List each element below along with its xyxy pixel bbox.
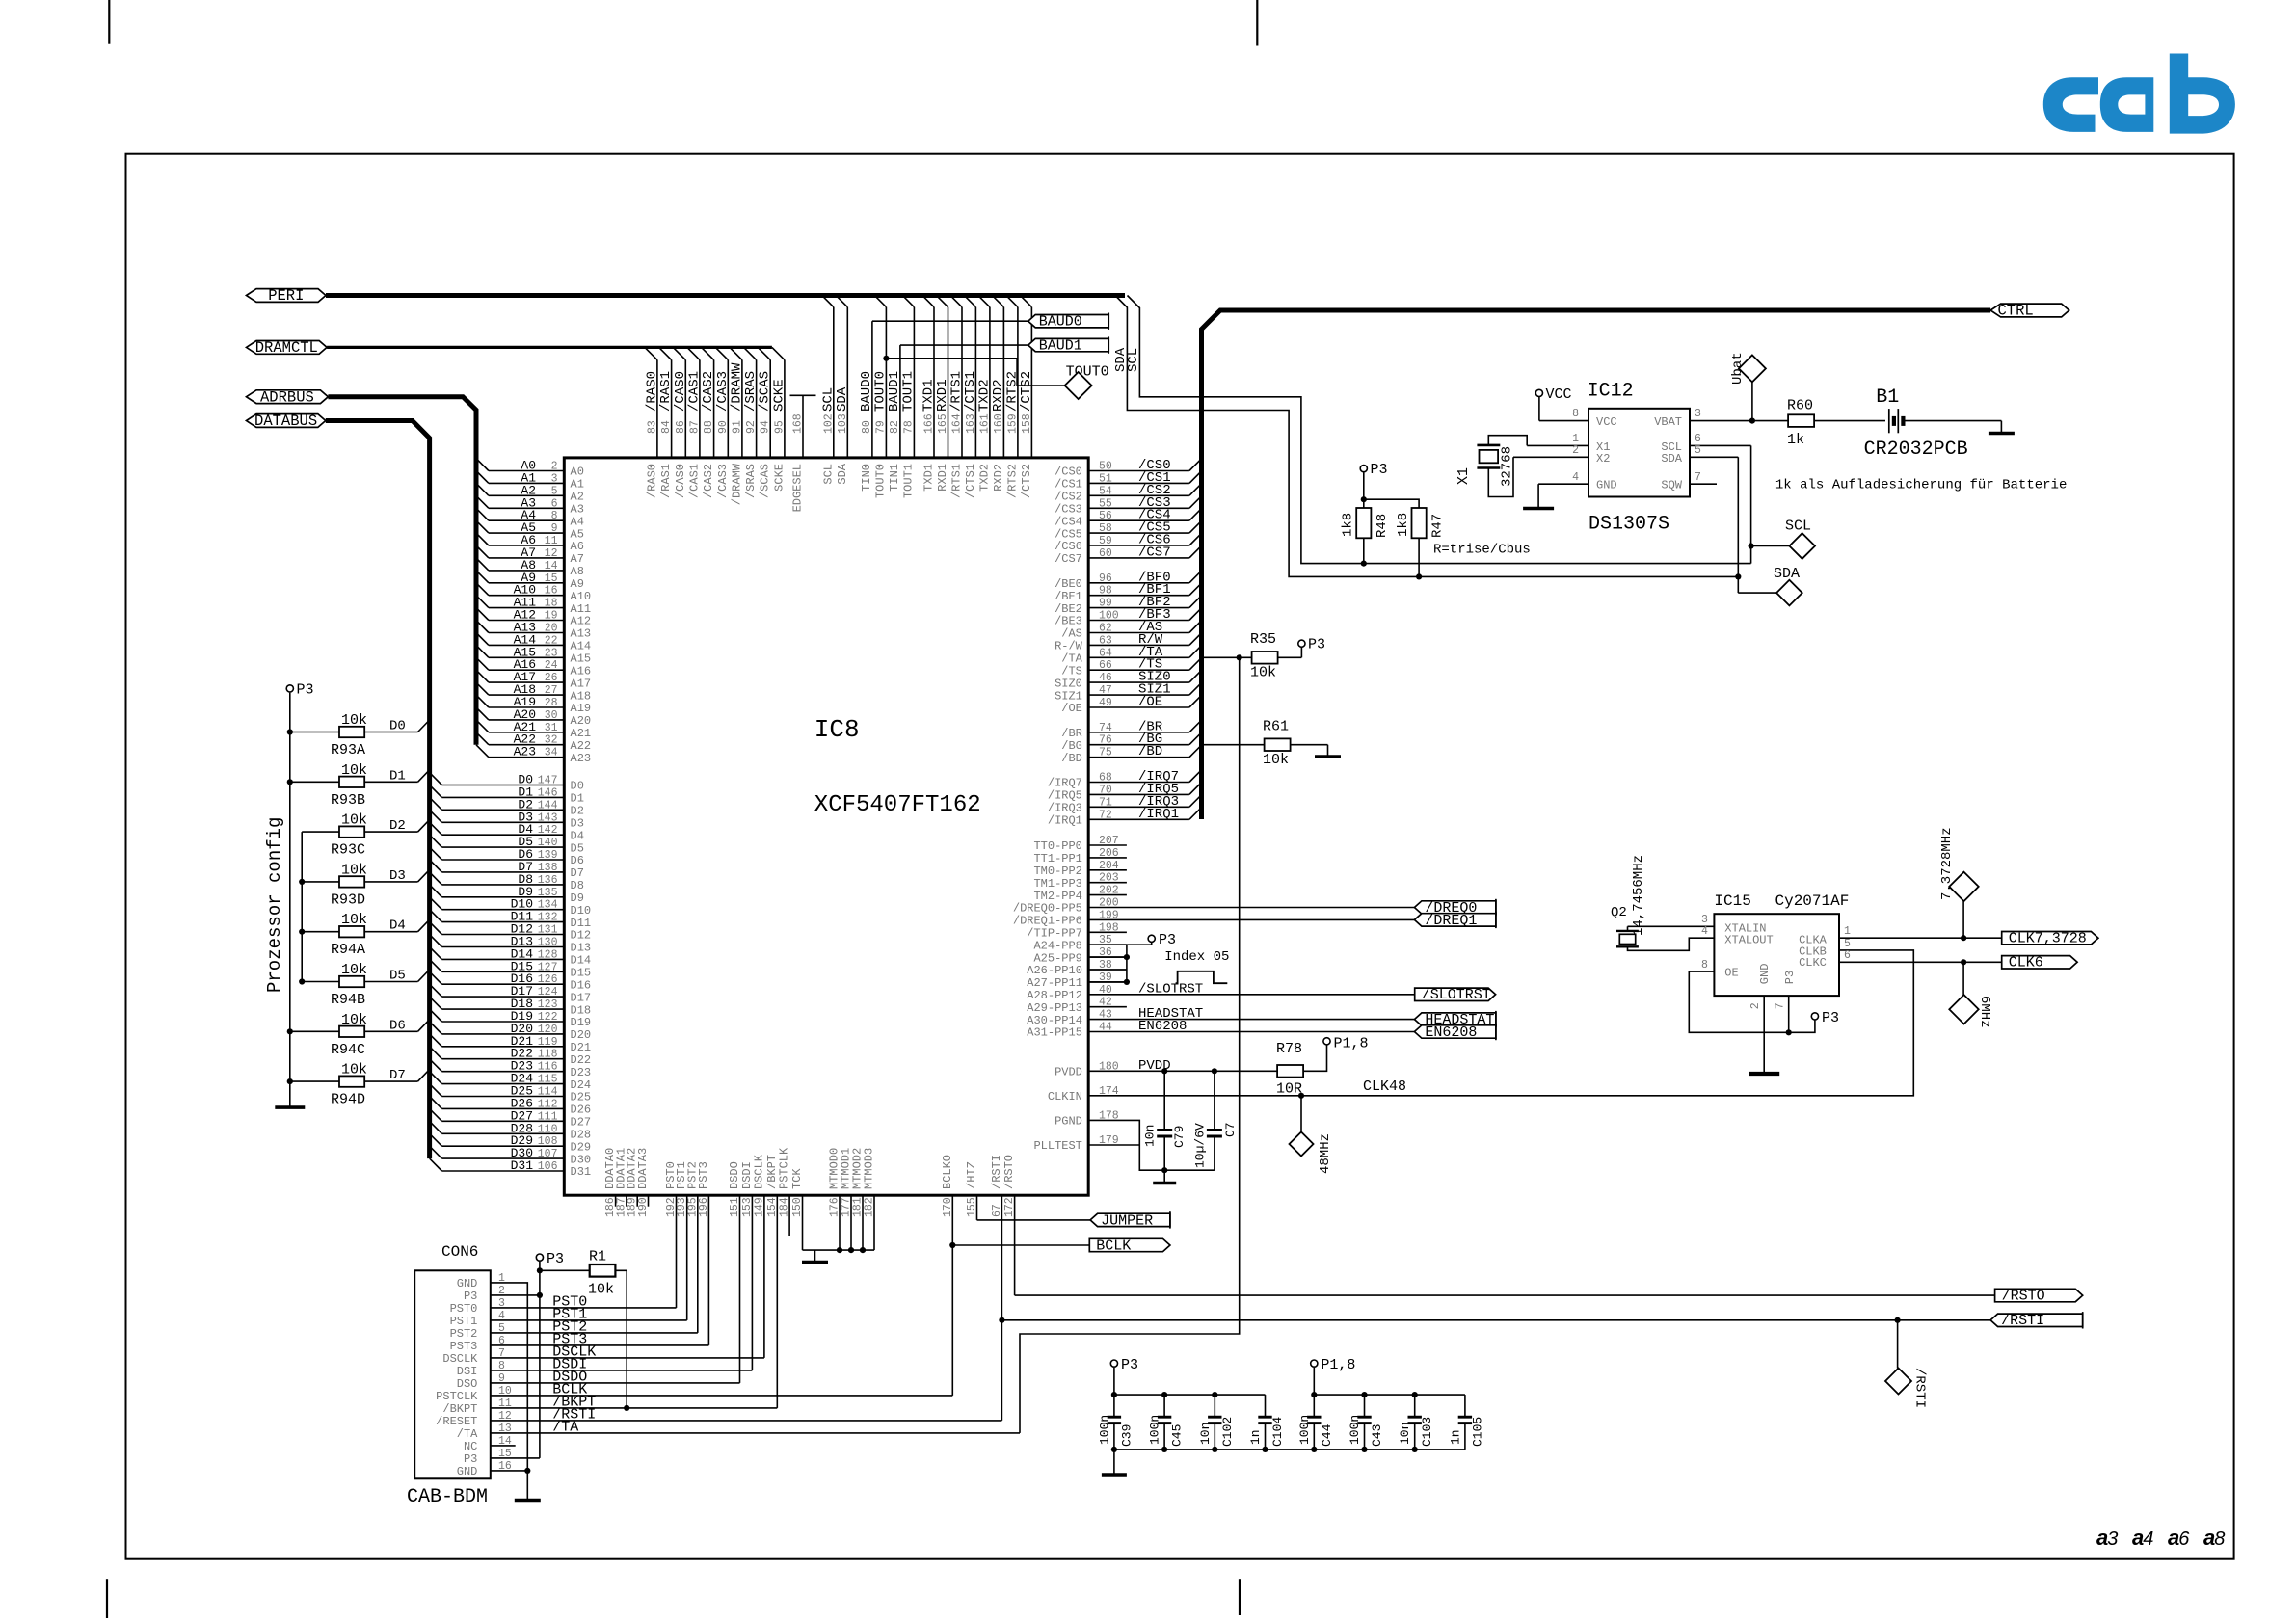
crystal X1 32768 (1477, 444, 1500, 447)
svg-text:/CS3: /CS3 (1055, 503, 1082, 517)
capacitor C43 100n (1364, 1395, 1366, 1417)
svg-text:TIN0: TIN0 (860, 464, 873, 492)
svg-text:/TIP-PP7: /TIP-PP7 (1027, 927, 1082, 941)
svg-text:C104: C104 (1270, 1417, 1285, 1447)
svg-text:/IRQ7: /IRQ7 (1048, 777, 1082, 790)
svg-text:/CAS3: /CAS3 (715, 371, 731, 412)
bus flag ADRBUS (247, 390, 329, 404)
bus flag DRAMCTL (247, 341, 328, 355)
wire D1 to DATABUS entry (364, 781, 417, 783)
svg-text:10k: 10k (341, 862, 367, 878)
svg-text:10k: 10k (1250, 665, 1276, 681)
svg-text:D4: D4 (571, 829, 584, 842)
wire /SLOTRST (1088, 994, 1415, 996)
svg-text:10k: 10k (1263, 752, 1289, 768)
pin D16 (126) stub + bus entry (441, 983, 564, 985)
ground at R61 (1327, 745, 1329, 757)
svg-text:C103: C103 (1420, 1417, 1434, 1447)
wire P3 vertical ladder (289, 693, 291, 1096)
supply P1,8 at R78 (1323, 1038, 1330, 1045)
svg-text:DRAMCTL: DRAMCTL (255, 339, 318, 357)
resistor R78 10R (1277, 1065, 1303, 1078)
pin /CAS3 (90) stub to DRAMCTL bus (727, 359, 729, 458)
wire D3 to DATABUS entry (364, 881, 417, 883)
svg-text:/CAS2: /CAS2 (701, 371, 716, 412)
pin MTMOD1 (177) wire to ground rail (850, 1195, 852, 1250)
pin SIZ1 (47) stub + net SIZ1 bus entry (1088, 694, 1189, 696)
bus flag DATABUS (247, 414, 326, 428)
pin SIZ0 (46) stub + net SIZ0 bus entry (1088, 681, 1189, 683)
svg-text:/RTS2: /RTS2 (1005, 464, 1019, 498)
ground at C79 (1163, 1170, 1165, 1183)
svg-text:D10: D10 (571, 904, 592, 918)
svg-text:56: 56 (1099, 510, 1112, 522)
svg-text:/TA: /TA (1061, 652, 1082, 666)
pin RXD2 (160) stub to PERI bus (1002, 307, 1004, 458)
svg-text:CTRL: CTRL (1998, 303, 2034, 320)
svg-text:P1,8: P1,8 (1321, 1357, 1355, 1373)
svg-text:190: 190 (637, 1197, 650, 1217)
svg-text:A0: A0 (571, 466, 584, 479)
svg-text:Q2: Q2 (1611, 905, 1627, 920)
svg-text:/BD: /BD (1061, 752, 1082, 765)
svg-text:72: 72 (1099, 809, 1112, 821)
svg-text:50: 50 (1099, 461, 1112, 473)
pin /BD (75) stub + net /BD bus entry (1088, 757, 1189, 758)
svg-text:126: 126 (538, 973, 558, 986)
svg-text:/RAS1: /RAS1 (659, 464, 673, 498)
svg-text:107: 107 (538, 1148, 558, 1160)
pin GND (4) + ground (1538, 483, 1589, 485)
svg-text:166: 166 (923, 413, 936, 434)
pin X1 (1) wire to crystal (1527, 444, 1589, 446)
pin SCL (6) wire to diamond (1690, 444, 1751, 446)
wire /RSTO (1015, 1294, 1995, 1296)
svg-text:/RSTI: /RSTI (2001, 1313, 2044, 1329)
svg-text:153: 153 (741, 1197, 754, 1217)
svg-text:5: 5 (1695, 444, 1701, 457)
svg-text:/OE: /OE (1061, 702, 1082, 715)
ground at battery (2000, 421, 2002, 434)
supply P1,8 at cap bank (1311, 1360, 1318, 1367)
pin PSTCLK (184) wire (788, 1195, 790, 1236)
wire SCL from PERI (1128, 296, 1751, 564)
svg-text:3: 3 (1695, 408, 1701, 420)
pin D20 (120) stub + bus entry (441, 1033, 564, 1035)
svg-text:A11: A11 (571, 602, 592, 616)
svg-text:SDA: SDA (1774, 566, 1800, 582)
net flag /SLOTRST (1415, 988, 1496, 1000)
svg-text:A16: A16 (571, 664, 592, 678)
svg-text:47: 47 (1099, 684, 1112, 697)
svg-text:R=trise/Cbus: R=trise/Cbus (1433, 543, 1531, 558)
svg-text:BCLK: BCLK (1096, 1237, 1131, 1254)
pin DSCLK (149) wire (763, 1195, 765, 1358)
svg-text:42: 42 (1099, 997, 1112, 1009)
svg-text:/SRAS: /SRAS (744, 464, 758, 498)
IC IC8 XCF5407FT162 body (564, 458, 1088, 1195)
svg-text:Prozessor config: Prozessor config (264, 817, 285, 993)
svg-text:10k: 10k (341, 912, 367, 928)
pin P3 (7) wire (1788, 996, 1790, 1032)
pin TIN0 (80) stub to BAUD0 net (871, 321, 873, 458)
svg-text:127: 127 (538, 961, 558, 973)
svg-text:D6: D6 (571, 854, 584, 867)
pin A22 (32) stub + bus entry (489, 744, 564, 746)
svg-text:/RAS0: /RAS0 (644, 371, 659, 412)
svg-text:PST2: PST2 (450, 1327, 478, 1341)
svg-text:100n: 100n (1097, 1415, 1111, 1445)
svg-text:/SRAS: /SRAS (743, 371, 759, 412)
pin /IRQ1 (72) stub + net /IRQ1 bus entry (1088, 818, 1189, 820)
pin TOUT0 (79) stub to PERI bus (885, 307, 887, 458)
svg-text:RXD2: RXD2 (992, 464, 1005, 492)
svg-text:/DREQ1: /DREQ1 (1425, 913, 1477, 929)
pin D18 (123) stub + bus entry (441, 1008, 564, 1010)
svg-text:32768: 32768 (1500, 446, 1515, 487)
bus flag CTRL (1990, 304, 2069, 317)
resistor R35 10k (1252, 652, 1278, 664)
pin /RAS1 (84) stub to DRAMCTL bus (671, 359, 673, 458)
bus wire ADRBUS (328, 397, 476, 745)
svg-text:SCKE: SCKE (772, 464, 786, 492)
ground MTMOD/TCK (814, 1250, 816, 1262)
svg-text:10k: 10k (588, 1282, 614, 1298)
svg-text:R94B: R94B (331, 992, 365, 1008)
resistor R93A 10k on D0 (290, 732, 339, 733)
svg-text:D1: D1 (389, 768, 406, 784)
pin A2 (5) stub + bus entry (489, 494, 564, 496)
pin A21 (31) stub + bus entry (489, 732, 564, 733)
wire CON6 net PST1 (491, 1319, 687, 1321)
pin A0 (2) stub + bus entry (489, 470, 564, 472)
net flag /DREQ0 (1414, 901, 1496, 914)
pin A15 (23) stub + bus entry (489, 656, 564, 658)
svg-text:PST3: PST3 (450, 1340, 478, 1353)
pin D7 (138) stub + bus entry (441, 871, 564, 873)
svg-text:A24-PP8: A24-PP8 (1033, 939, 1081, 952)
ground at CON6 (526, 1497, 528, 1501)
svg-text:D30: D30 (571, 1153, 592, 1166)
svg-text:A2: A2 (571, 491, 584, 504)
svg-text:/AS: /AS (1061, 627, 1082, 641)
net flag BAUD1 (1028, 338, 1109, 351)
svg-text:196: 196 (698, 1197, 710, 1217)
wire EN6208 (1088, 1031, 1414, 1033)
pin /TIP-PP7 (198) stub (1088, 931, 1127, 933)
pin VBAT (3) wire (1690, 420, 1788, 422)
svg-text:131: 131 (538, 924, 558, 937)
resistor R94B 10k on D5 (302, 981, 339, 983)
svg-text:/RAS1: /RAS1 (658, 371, 674, 412)
svg-text:IC12: IC12 (1588, 381, 1634, 403)
svg-text:161: 161 (978, 413, 991, 434)
svg-text:/CS4: /CS4 (1055, 515, 1082, 528)
svg-text:10k: 10k (341, 812, 367, 829)
net diamond 6MHz (1962, 962, 1964, 995)
svg-text:55: 55 (1099, 497, 1112, 510)
pin TXD1 (166) stub to PERI bus (933, 307, 935, 458)
svg-text:24: 24 (545, 659, 558, 672)
svg-text:119: 119 (538, 1036, 558, 1049)
svg-text:87: 87 (688, 420, 701, 434)
pin TM2-PP4 (202) stub (1088, 894, 1127, 896)
svg-text:6: 6 (551, 497, 558, 510)
pin D3 (143) stub + bus entry (441, 821, 564, 823)
resistor R94D 10k on D7 (290, 1080, 339, 1082)
wire CON6 net DSDO (491, 1382, 740, 1384)
svg-text:12: 12 (545, 547, 558, 560)
svg-text:82: 82 (889, 420, 901, 434)
pin DDATA3 (190) stub (648, 1195, 650, 1207)
svg-text:R-/W: R-/W (1055, 640, 1083, 653)
svg-text:D29: D29 (571, 1140, 592, 1154)
svg-text:66: 66 (1099, 659, 1112, 672)
svg-text:/CS2: /CS2 (1055, 491, 1082, 504)
svg-text:R60: R60 (1787, 398, 1813, 414)
pin /BG (76) stub + net /BG bus entry (1088, 744, 1189, 746)
svg-text:90: 90 (717, 420, 730, 434)
svg-text:DSCLK: DSCLK (442, 1352, 478, 1366)
svg-text:D23: D23 (571, 1066, 592, 1079)
svg-text:D20: D20 (571, 1028, 592, 1042)
svg-text:C102: C102 (1220, 1417, 1235, 1447)
capacitor C7 10u/6V (1214, 1071, 1215, 1130)
svg-text:D24: D24 (571, 1078, 592, 1092)
pin /SCAS (94) stub to DRAMCTL bus (769, 359, 771, 458)
wire cap ground rail (1114, 1449, 1465, 1450)
svg-text:D3: D3 (389, 868, 406, 884)
svg-text:D2: D2 (571, 805, 584, 818)
svg-text:116: 116 (538, 1061, 558, 1074)
pin TM0-PP2 (204) stub (1088, 869, 1127, 871)
ground at cap bank (1113, 1450, 1115, 1475)
svg-text:110: 110 (538, 1123, 558, 1135)
svg-text:10n: 10n (1398, 1423, 1412, 1445)
svg-text:a3: a3 (2096, 1526, 2118, 1550)
svg-text:D15: D15 (571, 967, 592, 980)
pin /CAS2 (88) stub to DRAMCTL bus (713, 359, 715, 458)
svg-text:182: 182 (864, 1197, 876, 1217)
pin /BR (74) stub + net /BR bus entry (1088, 732, 1189, 733)
svg-text:A25-PP9: A25-PP9 (1033, 951, 1081, 965)
svg-text:22: 22 (545, 634, 558, 647)
svg-text:PSTCLK: PSTCLK (436, 1390, 478, 1403)
pin A18 (27) stub + bus entry (489, 694, 564, 696)
pin SDA (103) stub to PERI bus (846, 307, 848, 458)
svg-text:112: 112 (538, 1098, 558, 1110)
svg-text:A31-PP15: A31-PP15 (1027, 1026, 1082, 1040)
pin D25 (114) stub + bus entry (441, 1096, 564, 1098)
svg-text:D0: D0 (389, 719, 406, 734)
wire PVDD (1088, 1070, 1277, 1072)
pin D19 (122) stub + bus entry (441, 1021, 564, 1023)
svg-text:202: 202 (1099, 885, 1119, 897)
pin /TA (64) stub + net /TA bus entry (1088, 656, 1189, 658)
wire HEADSTAT (1088, 1019, 1414, 1021)
svg-text:138: 138 (538, 862, 558, 874)
svg-text:100n: 100n (1348, 1415, 1362, 1445)
svg-text:95: 95 (773, 420, 786, 434)
net flag EN6208 (1414, 1025, 1496, 1038)
svg-text:122: 122 (538, 1011, 558, 1024)
svg-text:/CS0: /CS0 (1055, 466, 1082, 479)
svg-text:DSCLK: DSCLK (752, 1154, 765, 1189)
svg-text:A20: A20 (571, 714, 592, 728)
pin A3 (6) stub + bus entry (489, 507, 564, 509)
svg-text:CR2032PCB: CR2032PCB (1864, 439, 1968, 461)
svg-text:SDA: SDA (836, 463, 849, 484)
svg-text:/CS7: /CS7 (1138, 545, 1171, 560)
svg-text:88: 88 (703, 420, 715, 434)
pin A11 (18) stub + bus entry (489, 607, 564, 609)
resistor R93D 10k on D3 (302, 881, 339, 883)
svg-text:144: 144 (538, 799, 558, 811)
pin DDATA2 (189) stub (636, 1195, 638, 1207)
pin /CAS0 (86) stub to DRAMCTL bus (684, 359, 686, 458)
pin TIN1 (82) stub to BAUD1 net (899, 345, 901, 458)
resistor R60 1k (1788, 414, 1814, 427)
svg-text:120: 120 (538, 1024, 558, 1036)
svg-text:/DREQ1-PP6: /DREQ1-PP6 (1013, 915, 1082, 928)
pin D9 (135) stub + bus entry (441, 896, 564, 898)
pin XTALIN (3) wire to Q2 (1627, 926, 1629, 931)
svg-text:/BE2: /BE2 (1055, 602, 1082, 616)
svg-text:/RSTI: /RSTI (1912, 1368, 1928, 1408)
svg-text:/BD: /BD (1138, 744, 1162, 759)
pin /CS2 (54) stub + net /CS2 bus entry (1088, 494, 1189, 496)
wire CLK48 CLKIN to IC15 CLKB (1088, 950, 1913, 1096)
svg-text:/DREQ0-PP5: /DREQ0-PP5 (1013, 902, 1082, 916)
svg-text:PGND: PGND (1055, 1115, 1082, 1129)
bus wire PERI (326, 293, 1125, 298)
pin A20 (30) stub + bus entry (489, 719, 564, 721)
svg-text:SCKE: SCKE (771, 379, 787, 412)
pin D24 (115) stub + bus entry (441, 1083, 564, 1085)
supply P3 at index pins (1151, 943, 1153, 945)
pin A23 (34) stub + bus entry (489, 757, 564, 758)
pin MTMOD0 (176) wire to ground rail (839, 1195, 841, 1250)
svg-text:D18: D18 (571, 1003, 592, 1017)
svg-text:26: 26 (545, 672, 558, 684)
svg-text:C43: C43 (1370, 1424, 1384, 1447)
wire D6 to DATABUS entry (364, 1030, 417, 1032)
svg-text:8: 8 (1701, 959, 1708, 971)
pin /CS1 (51) stub + net /CS1 bus entry (1088, 482, 1189, 484)
wire D2 to DATABUS entry (364, 831, 417, 833)
svg-text:10k: 10k (341, 1012, 367, 1028)
wire CON6 net DSCLK (491, 1357, 764, 1359)
svg-text:1n: 1n (1248, 1429, 1263, 1445)
svg-text:VCC: VCC (1596, 415, 1617, 429)
pin A24-PP8 (35) stub (1088, 944, 1127, 945)
pin D13 (130) stub + bus entry (441, 946, 564, 948)
svg-text:16: 16 (545, 585, 558, 598)
svg-text:A10: A10 (571, 590, 592, 603)
svg-text:PST0: PST0 (450, 1302, 478, 1316)
wire CON6 GND pins to ground (491, 1283, 528, 1497)
capacitor C44 100n (1313, 1395, 1315, 1417)
svg-text:165: 165 (937, 413, 949, 434)
svg-text:A29-PP13: A29-PP13 (1027, 1001, 1082, 1015)
svg-text:142: 142 (538, 824, 558, 837)
IC IC15 Cy2071AF body (1714, 914, 1839, 996)
svg-text:/CS1: /CS1 (1055, 478, 1082, 492)
svg-text:115: 115 (538, 1074, 558, 1086)
pin SCL (102) stub to PERI bus (833, 307, 835, 458)
pin /CS5 (58) stub + net /CS5 bus entry (1088, 532, 1189, 534)
svg-text:74: 74 (1099, 722, 1112, 734)
net flag JUMPER (1090, 1213, 1170, 1226)
svg-text:10k: 10k (341, 762, 367, 779)
crop mark bottom left (106, 1579, 108, 1618)
svg-text:/RTS1: /RTS1 (950, 464, 964, 498)
svg-text:5: 5 (551, 485, 558, 497)
capacitor C102 10n (1214, 1395, 1215, 1417)
pin /BE1 (98) stub + net /BF1 bus entry (1088, 595, 1189, 597)
pin D4 (142) stub + bus entry (441, 834, 564, 836)
pin DSDO (151) wire (739, 1195, 741, 1383)
svg-text:/TA: /TA (457, 1427, 478, 1441)
svg-text:P3: P3 (547, 1251, 564, 1267)
pin /CTS1 (163) stub to PERI bus (974, 307, 976, 458)
wire R1 to /BKPT (615, 1270, 627, 1408)
wire /BG to R61 (1202, 744, 1265, 746)
svg-text:31: 31 (545, 722, 558, 734)
svg-text:A17: A17 (571, 677, 592, 690)
svg-text:D1: D1 (571, 792, 584, 806)
svg-text:GND: GND (1758, 964, 1772, 985)
svg-text:TM2-PP4: TM2-PP4 (1033, 890, 1081, 903)
pin TCK (150) wire (802, 1195, 804, 1250)
pin RXD1 (165) stub to PERI bus (948, 307, 949, 458)
svg-text:TM0-PP2: TM0-PP2 (1033, 865, 1081, 878)
svg-text:/RAS0: /RAS0 (645, 464, 658, 498)
resistor R93B 10k on D1 (290, 781, 339, 783)
pin TOUT1 (78) stub to PERI bus (913, 307, 915, 458)
svg-text:TM1-PP3: TM1-PP3 (1033, 877, 1081, 891)
svg-text:P1,8: P1,8 (1334, 1036, 1369, 1052)
svg-text:2: 2 (551, 461, 558, 473)
pin D26 (112) stub + bus entry (441, 1107, 564, 1109)
svg-text:68: 68 (1099, 772, 1112, 785)
svg-text:46: 46 (1099, 672, 1112, 684)
svg-text:/IRQ1: /IRQ1 (1138, 807, 1179, 822)
svg-text:184: 184 (779, 1197, 791, 1217)
pin /RTS2 (159) stub to PERI bus (1017, 307, 1019, 458)
svg-text:D6: D6 (389, 1018, 406, 1033)
svg-text:1: 1 (1844, 925, 1851, 938)
net diamond 7.3728MHz (1962, 901, 1964, 938)
wire D7 to DATABUS entry (364, 1080, 417, 1082)
pin PST3 (196) wire to CON6 (707, 1195, 709, 1345)
pin CLKA (1) wire to CLK7,3728 (1839, 937, 2002, 939)
svg-text:130: 130 (538, 937, 558, 949)
svg-text:A13: A13 (571, 627, 592, 641)
svg-text:P3: P3 (1159, 932, 1176, 948)
svg-text:A23: A23 (571, 752, 592, 765)
pin D2 (144) stub + bus entry (441, 809, 564, 811)
pin /SRAS (92) stub to DRAMCTL bus (756, 359, 758, 458)
svg-text:A5: A5 (571, 527, 584, 541)
svg-text:23: 23 (545, 647, 558, 659)
net diamond SCL (1789, 533, 1815, 559)
pin /RAS0 (83) stub to DRAMCTL bus (656, 359, 658, 458)
pin /BE3 (100) stub + net /BF3 bus entry (1088, 620, 1189, 622)
svg-text:/IRQ5: /IRQ5 (1048, 789, 1082, 803)
net flag CLK7,3728 (2002, 932, 2098, 945)
svg-text:A14: A14 (571, 640, 592, 653)
